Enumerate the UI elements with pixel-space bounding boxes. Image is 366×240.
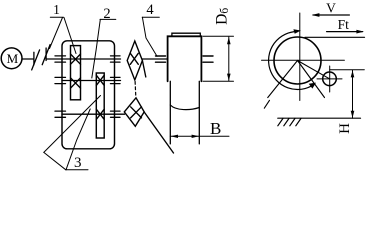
centerline vertical [299,13,301,101]
label 1 [50,2,77,53]
bearing dashes shaft I left wall [55,56,66,62]
belt band over drum [172,33,200,36]
motor M [1,48,22,69]
svg-text:B: B [210,119,221,138]
line to roller [298,61,330,79]
bearing dashes drum left [156,56,166,62]
chain dashed line [134,82,137,97]
wire shaft I through gearbox [71,58,121,60]
gear pair stage 1 [71,46,81,100]
wire drum shaft [142,58,167,60]
bearing dashes shaft III right wall [111,111,121,117]
belt sides [169,81,171,144]
small roller [317,66,342,92]
support line right [298,61,325,98]
short stroke [264,100,269,108]
centerline horizontal [262,59,345,61]
support line left [268,61,298,98]
gearbox housing [62,41,115,149]
label 3 [44,96,101,172]
wire shaft I coupling to gearbox [46,58,70,60]
drum end view circle [274,37,321,84]
dimension H [330,70,365,134]
sprocket lower [124,98,144,127]
svg-text:V: V [326,1,336,16]
wire diagonal from lower sprocket [144,112,173,153]
arrowhead lower [309,83,316,89]
svg-text:Ft: Ft [338,17,350,32]
sprocket upper (chain drive) [127,41,142,80]
belt tangent line [305,36,365,38]
bearing dashes drum right [203,56,213,62]
svg-text:1: 1 [53,2,60,17]
bearing dashes shaft III left wall [55,111,66,117]
arrow V [312,1,350,17]
rotation arc [269,32,314,90]
dimension D drum [203,8,234,82]
belt break curve [170,105,199,110]
coupling (label 1) [32,45,50,70]
wire shaft III [62,113,125,115]
bearing dashes shaft II right wall [111,77,121,83]
gear pair stage 2 [96,73,104,138]
svg-text:H: H [337,123,353,134]
label 2 [92,6,116,78]
svg-text:M: M [7,51,19,66]
bearing dashes shaft II left wall [55,77,66,83]
label 4 [142,2,159,56]
wire sprocket edge line [142,61,145,78]
svg-text:4: 4 [146,2,154,18]
dimension B [170,119,229,138]
ground [278,118,361,126]
arrowhead top [293,29,301,34]
bearing dashes shaft I right wall [111,56,121,62]
drum [168,36,202,81]
arrow Ft [327,17,364,34]
wire shaft II [62,80,121,82]
wire motor shaft [22,58,34,60]
svg-text:3: 3 [74,155,82,171]
